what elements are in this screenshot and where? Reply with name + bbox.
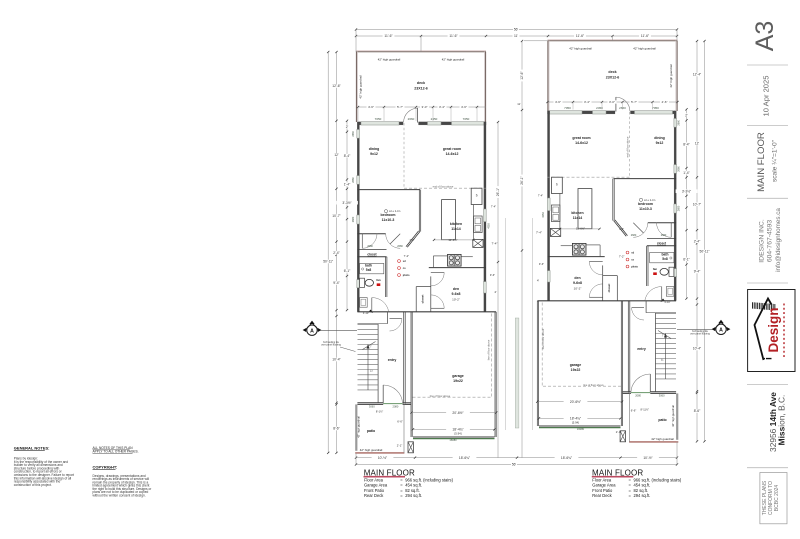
stair up arrow	[367, 345, 369, 390]
svg-text:3'-3½": 3'-3½"	[682, 189, 692, 193]
svg-text:42" high guardrail: 42" high guardrail	[360, 448, 383, 452]
svg-text:2080: 2080	[393, 404, 399, 408]
svg-text:sd ⌀ 2-4¾: sd ⌀ 2-4¾	[644, 198, 656, 202]
entry-den door	[390, 318, 402, 320]
svg-text:Mission, B.C.: Mission, B.C.	[777, 395, 787, 446]
garage corner post	[408, 442, 413, 453]
svg-text:7050: 7050	[375, 117, 382, 121]
svg-text:entry: entry	[388, 358, 397, 362]
kitchen counter and sink	[473, 205, 475, 240]
idesign logo tagline dots	[783, 304, 784, 306]
conform box	[760, 473, 787, 524]
svg-text:26'-1": 26'-1"	[520, 175, 524, 184]
svg-text:[5.94]: [5.94]	[455, 431, 462, 435]
den/garage top wall	[357, 311, 496, 313]
svg-text:10'-7": 10'-7"	[693, 202, 702, 206]
svg-text:patio: patio	[658, 418, 666, 422]
svg-text:2680: 2680	[352, 216, 355, 222]
svg-text:12'-6": 12'-6"	[520, 70, 524, 79]
stairs	[377, 324, 379, 403]
svg-text:18'-6¾": 18'-6¾"	[459, 456, 471, 460]
svg-text:12': 12'	[695, 142, 700, 146]
top deck dimensions 11-6	[356, 35, 677, 37]
section marker A left	[307, 325, 317, 335]
svg-text:4'-10": 4'-10"	[363, 312, 369, 315]
svg-text:8'-6": 8'-6"	[333, 427, 340, 431]
svg-text:3'-4": 3'-4"	[439, 105, 445, 109]
svg-text:7050: 7050	[652, 106, 659, 110]
svg-text:9x12: 9x12	[656, 141, 664, 145]
dining/great-room divider (dashed)	[403, 123, 405, 188]
svg-text:2660: 2660	[408, 117, 415, 121]
svg-text:5'-7": 5'-7"	[397, 105, 403, 109]
svg-text:construction of this project.: construction of this project.	[14, 483, 52, 487]
svg-text:7050: 7050	[564, 106, 571, 110]
svg-text:end of floor above: end of floor above	[433, 184, 454, 188]
svg-text:604-767-4593: 604-767-4593	[767, 220, 774, 263]
right exterior wall (kitchen/den side)	[484, 122, 486, 312]
svg-text:9'-4": 9'-4"	[333, 281, 340, 285]
svg-text:2'-1": 2'-1"	[616, 430, 622, 434]
svg-text:kitchen: kitchen	[571, 211, 583, 215]
svg-text:7'-2": 7'-2"	[619, 255, 625, 259]
svg-text:garage: garage	[452, 374, 464, 378]
svg-text:10'-2": 10'-2"	[574, 287, 582, 291]
bedroom closet door	[361, 234, 363, 249]
svg-text:42" high guardrail: 42" high guardrail	[633, 46, 656, 50]
svg-text:23X12-6: 23X12-6	[414, 87, 428, 91]
bottom garage dims right	[537, 401, 622, 403]
svg-text:18'-6¾": 18'-6¾"	[561, 456, 573, 460]
svg-text:7050: 7050	[463, 117, 470, 121]
svg-text:den: den	[574, 276, 580, 280]
svg-text:2680: 2680	[631, 234, 637, 237]
svg-text:2660: 2660	[352, 130, 355, 136]
svg-text:closet: closet	[367, 253, 377, 257]
svg-text:7'-4": 7'-4"	[536, 231, 542, 235]
svg-text:3'-3½": 3'-3½"	[342, 201, 352, 205]
svg-text:56': 56'	[514, 28, 519, 32]
garage walls	[403, 312, 405, 404]
svg-text:sd ⌀ 2-4¾: sd ⌀ 2-4¾	[389, 209, 401, 213]
svg-text:8'-6": 8'-6"	[694, 409, 701, 413]
svg-text:4'-6": 4'-6"	[461, 105, 467, 109]
svg-text:deck: deck	[608, 70, 616, 74]
svg-text:line of floor above: line of floor above	[583, 383, 604, 387]
svg-text:14-6x12: 14-6x12	[575, 141, 588, 145]
svg-text:5x8: 5x8	[662, 257, 668, 261]
svg-text:4'-6": 4'-6"	[555, 100, 561, 104]
svg-text:patio: patio	[367, 429, 375, 433]
den doors	[431, 272, 444, 274]
garage dashed floor-above	[490, 314, 492, 398]
svg-text:9'-4": 9'-4"	[694, 270, 701, 274]
svg-text:20'-6½": 20'-6½"	[452, 411, 464, 415]
svg-text:line of floor above: line of floor above	[430, 394, 451, 398]
svg-text:56': 56'	[512, 463, 517, 467]
svg-text:2680: 2680	[397, 245, 403, 248]
svg-text:2'-4": 2'-4"	[694, 240, 701, 244]
svg-text:23X12-6: 23X12-6	[606, 76, 620, 80]
den top wall	[429, 267, 486, 269]
svg-text:4050: 4050	[487, 223, 490, 229]
svg-text:Rear Deck: Rear Deck	[592, 493, 612, 498]
svg-text:4'-6": 4'-6"	[368, 105, 374, 109]
svg-text:42" high guardrail: 42" high guardrail	[442, 57, 465, 61]
idesign logo roofline	[755, 299, 772, 361]
svg-text:9'-6": 9'-6"	[539, 262, 544, 266]
left outer vertical dims	[327, 52, 329, 453]
svg-text:fan: fan	[376, 278, 381, 282]
svg-text:10'-7": 10'-7"	[332, 214, 341, 218]
svg-text:line of floor above: line of floor above	[487, 339, 491, 360]
svg-text:bedroom: bedroom	[381, 213, 396, 217]
end of floor above dashed line	[404, 187, 486, 189]
svg-text:2': 2'	[346, 125, 349, 129]
svg-text:b: b	[476, 194, 478, 198]
svg-text:42" high guardrail: 42" high guardrail	[357, 416, 361, 438]
svg-text:11'-6½": 11'-6½"	[576, 227, 585, 231]
svg-text:8'-11½": 8'-11½"	[641, 408, 650, 412]
svg-text:294 sq.ft.: 294 sq.ft.	[405, 493, 422, 498]
svg-text:den: den	[453, 287, 459, 291]
section line A-A	[317, 329, 358, 331]
right unit back-wall dim string	[548, 101, 678, 103]
top overall dimension 56ft	[356, 29, 677, 31]
svg-text:3'-0": 3'-0"	[410, 239, 415, 242]
svg-text:11x14: 11x14	[573, 216, 583, 220]
svg-text:3'-4": 3'-4"	[584, 100, 590, 104]
laundry box	[360, 298, 368, 308]
svg-text:3'-0": 3'-0"	[422, 105, 428, 109]
svg-text:garage: garage	[570, 363, 582, 367]
svg-text:11'-6": 11'-6"	[384, 34, 393, 38]
svg-text:A3: A3	[751, 21, 779, 52]
svg-text:1'-4": 1'-4"	[683, 171, 690, 175]
svg-text:2660: 2660	[677, 166, 680, 172]
svg-text:2680: 2680	[677, 205, 680, 211]
svg-text:50'-11": 50'-11"	[323, 260, 334, 264]
deck guardrail	[356, 51, 486, 53]
svg-text:14-6x12: 14-6x12	[446, 152, 459, 156]
svg-text:10 Apr 2025: 10 Apr 2025	[761, 76, 770, 117]
svg-text:dining: dining	[369, 147, 380, 151]
svg-text:8'-4": 8'-4"	[683, 142, 690, 146]
svg-text:Design: Design	[766, 307, 781, 352]
idesign logo shingle bar	[752, 302, 754, 308]
svg-text:b: b	[556, 183, 558, 187]
svg-text:12'-4": 12'-4"	[693, 73, 702, 77]
svg-text:4'-10": 4'-10"	[664, 301, 670, 304]
svg-text:BCBC 2024: BCBC 2024	[774, 485, 780, 512]
svg-text:IDESIGN INC.: IDESIGN INC.	[759, 219, 766, 263]
middle gap extra lines	[505, 218, 507, 430]
svg-text:26'-1": 26'-1"	[496, 187, 500, 196]
svg-text:MAIN FLOOR: MAIN FLOOR	[756, 132, 767, 192]
svg-text:closet: closet	[421, 295, 425, 304]
right unit (mirrored geometry)	[537, 40, 678, 442]
kitchen counter edge	[433, 255, 447, 257]
svg-text:12'-6": 12'-6"	[332, 84, 341, 88]
den closet	[415, 287, 417, 312]
svg-text:10'-4": 10'-4"	[332, 358, 341, 362]
svg-text:end of floor above: end of floor above	[625, 136, 629, 157]
svg-text:closet: closet	[657, 242, 667, 246]
stair break line	[363, 342, 376, 350]
bottom dim line row1	[356, 457, 677, 459]
bedroom corner angled wall	[407, 232, 420, 248]
svg-text:11'-6": 11'-6"	[576, 34, 585, 38]
right outer vertical dims	[704, 41, 706, 441]
svg-text:294 sq.ft.: 294 sq.ft.	[634, 493, 651, 498]
svg-text:3060: 3060	[659, 393, 665, 397]
bedroom walls	[357, 189, 420, 191]
svg-text:fan: fan	[653, 267, 658, 271]
svg-text:photo: photo	[631, 266, 638, 269]
svg-text:11': 11'	[517, 102, 521, 106]
svg-text:2'-1": 2'-1"	[397, 443, 403, 447]
svg-text:9-6x8: 9-6x8	[573, 281, 582, 285]
svg-text:A: A	[310, 328, 314, 334]
svg-text:8'-1½": 8'-1½"	[376, 409, 383, 413]
svg-text:2660: 2660	[677, 119, 680, 125]
svg-text:great room: great room	[572, 136, 590, 140]
deck door swing	[417, 108, 419, 123]
svg-text:over panel flooring: over panel flooring	[321, 344, 341, 347]
svg-text:7'-4": 7'-4"	[492, 242, 498, 246]
svg-text:7'-2": 7'-2"	[404, 254, 410, 258]
svg-text:19x22: 19x22	[453, 379, 463, 383]
bedroom door	[390, 234, 400, 244]
svg-text:10'-2": 10'-2"	[452, 298, 460, 302]
section marker A right	[716, 324, 726, 334]
svg-text:9x12: 9x12	[370, 152, 378, 156]
kitchen island	[442, 200, 456, 240]
right unit detector symbols	[626, 251, 629, 254]
svg-text:5'-7": 5'-7"	[631, 100, 637, 104]
bottom garage dims left	[412, 412, 497, 414]
middle gap vertical dims	[497, 122, 499, 458]
svg-text:4'-6": 4'-6"	[662, 100, 668, 104]
svg-text:[5.94]: [5.94]	[572, 420, 579, 424]
svg-text:i: i	[764, 357, 775, 360]
svg-text:COPYRIGHT:: COPYRIGHT:	[93, 464, 118, 469]
svg-text:3'-0": 3'-0"	[609, 100, 615, 104]
svg-text:kitchen: kitchen	[450, 222, 462, 226]
svg-text:9'-6": 9'-6"	[490, 273, 495, 277]
svg-text:bedroom: bedroom	[638, 202, 653, 206]
svg-text:10'-½": 10'-½"	[378, 456, 388, 460]
svg-text:20'-6½": 20'-6½"	[570, 400, 582, 404]
svg-text:Rear Deck: Rear Deck	[364, 493, 384, 498]
svg-text:dining: dining	[654, 136, 665, 140]
svg-text:42" high guardrail: 42" high guardrail	[569, 46, 592, 50]
svg-text:7'-4": 7'-4"	[538, 194, 543, 198]
svg-text:2680: 2680	[367, 245, 373, 248]
svg-text:deck: deck	[417, 81, 425, 85]
svg-text:11'-6": 11'-6"	[449, 34, 458, 38]
svg-text:photo: photo	[403, 274, 410, 277]
svg-text:entry: entry	[637, 347, 646, 351]
svg-text:A: A	[719, 328, 723, 334]
garage door	[413, 436, 495, 438]
left exterior wall	[357, 122, 359, 312]
svg-text:3'-0": 3'-0"	[619, 228, 624, 231]
back wall with windows	[358, 122, 486, 125]
svg-text:2680: 2680	[661, 234, 667, 237]
svg-text:11x10-3: 11x10-3	[639, 207, 652, 211]
svg-text:without the written consent of: without the written consent of idesign.	[93, 493, 146, 497]
svg-text:10'-4": 10'-4"	[693, 347, 702, 351]
tub	[360, 263, 384, 273]
svg-text:7'-4": 7'-4"	[491, 205, 496, 209]
patio	[355, 404, 357, 450]
svg-text:6'-6": 6'-6"	[397, 420, 403, 424]
svg-text:4050: 4050	[542, 212, 545, 218]
hall closet walls	[357, 249, 386, 251]
svg-text:16080: 16080	[449, 438, 457, 442]
left unit back-wall dim string	[358, 106, 486, 108]
toilet	[360, 278, 365, 287]
idesign logo box	[748, 290, 795, 372]
fridge	[471, 188, 482, 204]
svg-text:19x22: 19x22	[571, 368, 581, 372]
svg-text:scale ¼"=1'-0": scale ¼"=1'-0"	[772, 139, 779, 182]
svg-text:3060: 3060	[369, 404, 375, 408]
svg-text:11x14: 11x14	[451, 227, 461, 231]
svg-text:8'-4": 8'-4"	[344, 154, 351, 158]
svg-text:42" high guardrail: 42" high guardrail	[671, 405, 675, 427]
svg-text:42" high guardrail: 42" high guardrail	[651, 437, 674, 441]
bath walls	[357, 256, 386, 258]
svg-text:2'-4": 2'-4"	[333, 251, 340, 255]
svg-text:great room: great room	[443, 147, 461, 151]
svg-text:6'-1": 6'-1"	[683, 258, 690, 262]
front wall + entry door	[357, 402, 383, 404]
svg-text:16080: 16080	[577, 427, 585, 431]
svg-text:2660: 2660	[352, 177, 355, 183]
svg-text:11'-6½": 11'-6½"	[448, 238, 457, 242]
bottom overall 56ft	[356, 464, 677, 466]
stove	[448, 254, 462, 266]
svg-text:9-6x8: 9-6x8	[452, 292, 461, 296]
left unit detector symbols	[398, 260, 401, 263]
svg-text:line of floor above: line of floor above	[541, 328, 545, 349]
svg-text:6'-6": 6'-6"	[631, 409, 637, 413]
svg-text:12': 12'	[334, 153, 339, 157]
svg-text:closet: closet	[607, 284, 611, 293]
bath door	[371, 298, 373, 312]
svg-text:2450: 2450	[431, 117, 438, 121]
svg-text:over panel flooring: over panel flooring	[690, 333, 710, 336]
kitchen chase X-box	[473, 239, 483, 247]
svg-text:1'-4": 1'-4"	[344, 182, 351, 186]
svg-text:10'-½": 10'-½"	[643, 456, 653, 460]
svg-text:5x8: 5x8	[366, 268, 372, 272]
svg-text:42" high guardrail: 42" high guardrail	[359, 75, 363, 99]
svg-text:11'-6": 11'-6"	[641, 34, 650, 38]
svg-text:11': 11'	[514, 34, 518, 38]
svg-text:42" high guardrail: 42" high guardrail	[669, 64, 673, 88]
svg-text:42" high guardrail: 42" high guardrail	[378, 57, 401, 61]
svg-text:2080: 2080	[635, 393, 641, 397]
svg-text:info@idesignhomes.ca: info@idesignhomes.ca	[775, 208, 782, 272]
svg-text:50'-11": 50'-11"	[700, 250, 711, 254]
svg-text:GENERAL NOTES:: GENERAL NOTES:	[14, 446, 50, 451]
svg-text:2': 2'	[685, 113, 688, 117]
svg-text:11x10-3: 11x10-3	[382, 218, 395, 222]
svg-text:6'-1": 6'-1"	[344, 269, 351, 273]
